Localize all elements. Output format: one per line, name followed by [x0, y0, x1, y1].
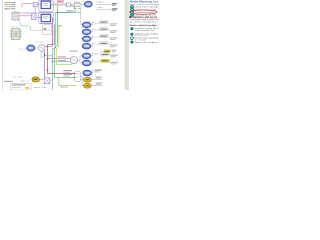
svg-text:sig_in: sig_in [18, 48, 26, 50]
bus wire horizontal [19, 12, 57, 14]
svg-text:Check related configs: Check related configs [129, 24, 157, 27]
source block S1 [33, 2, 37, 6]
label Y1 [96, 77, 103, 80]
list item C [131, 37, 134, 40]
subsystem U1 [41, 1, 50, 8]
label row P1 [90, 21, 117, 26]
bullet item 2 [130, 8, 134, 11]
scrollbar [125, 0, 129, 90]
motor MG1 [69, 51, 77, 64]
wire into U1 [37, 3, 41, 5]
junction dot red [47, 58, 49, 60]
output tag yellow Y1 [84, 77, 92, 82]
svg-text:solver variables set: solver variables set [134, 29, 154, 32]
from tag F1 [18, 45, 35, 51]
wire teal to motor [52, 61, 72, 63]
wire vertical purple [35, 7, 37, 13]
label row P3 [90, 35, 117, 40]
svg-text:t_whl_r: t_whl_r [96, 6, 104, 9]
port tag P4 [82, 43, 90, 48]
junction dot teal [52, 61, 54, 63]
ic X1 [10, 27, 21, 40]
svg-text:t_m: t_m [94, 60, 98, 63]
output tag yellow Y2 [84, 83, 92, 88]
wire F1 to src [35, 47, 39, 49]
left panel edge [2, 0, 4, 90]
pink box label [44, 28, 47, 29]
wire bundle purple vertical [44, 18, 52, 78]
subsystem U2 [41, 14, 50, 21]
svg-text:x_d: x_d [95, 44, 99, 46]
svg-text:w_ref: w_ref [36, 41, 43, 43]
wire demux out [50, 80, 52, 82]
port tag P5 [82, 53, 90, 58]
svg-text:dcdc: dcdc [12, 27, 19, 29]
battery B1 [12, 11, 19, 20]
wire light green [30, 29, 57, 31]
node label row2 top right [96, 6, 117, 11]
bullet item 3 [130, 13, 134, 16]
label row P5 [90, 53, 118, 57]
label Y2 [96, 83, 103, 86]
motor labels [58, 56, 66, 61]
wire teal vertical [52, 12, 80, 90]
mux M1 [31, 14, 36, 20]
wire lime [56, 26, 72, 65]
wire U2 out [51, 17, 53, 19]
bullet item 1 [130, 5, 134, 8]
wire green vertical [55, 5, 75, 78]
goto tag G0 [85, 1, 93, 7]
wire Y1 out [91, 79, 102, 81]
wire purple below U2 [40, 23, 52, 25]
label row P2 [90, 28, 117, 33]
wire MG2 to tags [81, 76, 85, 85]
wire U1 out lime [51, 3, 67, 5]
annotation box [11, 83, 31, 90]
wire Y3 to demux [39, 79, 44, 81]
junction dot red2 [47, 70, 49, 72]
highlighted net label [100, 50, 116, 53]
wire Y2 out [91, 85, 102, 87]
wire green stub [57, 25, 62, 27]
wire to goto tag [80, 3, 85, 5]
wire pink top-left [22, 4, 33, 8]
svg-text:Update the diagram: Update the diagram [134, 41, 157, 44]
section header dark [129, 16, 131, 18]
warning text red [129, 19, 159, 21]
port tag P6 [82, 60, 90, 65]
wire battery out [19, 15, 31, 17]
section bar [129, 24, 160, 27]
label box pink [57, 0, 63, 3]
demux M2 [44, 78, 50, 84]
svg-text:meas_bus: meas_bus [34, 87, 47, 89]
wire P1 to T1 [70, 3, 74, 5]
machine MG2 [74, 72, 80, 82]
svg-text:Check solver settings: Check solver settings [134, 6, 158, 9]
port tag P7 [83, 70, 91, 75]
svg-text:w_sel: w_sel [14, 77, 23, 79]
sensor block T1 [73, 2, 81, 10]
region box A2 [39, 12, 53, 23]
label row P7 [91, 70, 102, 73]
wire mux to U2 [36, 17, 41, 19]
svg-text:Review and fix the following: Review and fix the following [130, 3, 159, 6]
svg-text:See results and suggestions: See results and suggestions [130, 21, 158, 24]
wire green curve [57, 5, 75, 12]
label row P4 [90, 42, 117, 47]
highlighted item [130, 11, 134, 14]
tap T2 [41, 52, 52, 58]
svg-text:pwr_o: pwr_o [21, 81, 30, 83]
region box pink [43, 24, 52, 35]
svg-text:x_c: x_c [95, 36, 99, 38]
port tag P2 [82, 29, 90, 34]
wire bundle maroon [48, 24, 74, 73]
node label row1 top right [96, 1, 117, 6]
wire MG1 to tags [78, 56, 83, 63]
wire U1 out [51, 4, 67, 6]
svg-text:w_m: w_m [95, 53, 99, 55]
legend [5, 2, 16, 9]
svg-text:mdl_abc: mdl_abc [73, 8, 81, 10]
list item D [130, 41, 133, 44]
motor2 labels [63, 70, 72, 77]
region box A1 [39, 0, 53, 11]
ac source V1 [36, 41, 45, 51]
right panel [129, 0, 160, 44]
label row P6 highlighted [90, 59, 118, 64]
net name above teal bus [66, 10, 73, 11]
wire teal from battery [20, 20, 30, 30]
list item B [130, 33, 133, 36]
port tag P3 [82, 36, 90, 41]
list item A [130, 27, 133, 30]
converter block P1 [67, 3, 71, 7]
output tag yellow Y3 [4, 77, 39, 83]
oval column: port tag P1 [82, 22, 90, 27]
svg-text:t_whl_f: t_whl_f [96, 1, 104, 4]
wire red stub [71, 73, 75, 75]
wire red to motor [48, 58, 72, 60]
wire grey vertical from T1 [81, 7, 83, 25]
wire olive bottom [59, 78, 76, 86]
